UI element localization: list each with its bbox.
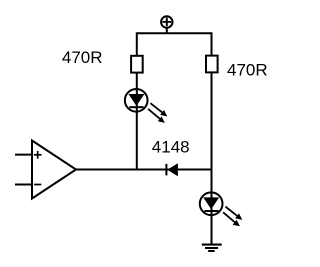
LED D2 right	[200, 192, 243, 226]
diode D3 1N4148	[166, 163, 178, 176]
svg-text:470R: 470R	[227, 61, 268, 80]
wire left branch vertical	[136, 33, 138, 169]
LED D1 left	[125, 89, 167, 123]
wire op-amp output horizontal	[76, 169, 212, 171]
resistor R2 right 470R	[206, 56, 218, 73]
resistor R1 left 470R	[131, 56, 143, 73]
svg-text:470R: 470R	[62, 48, 103, 67]
wire right branch vertical	[211, 33, 213, 244]
power symbol Vcc	[161, 16, 172, 33]
svg-text:4148: 4148	[152, 138, 190, 157]
op-amp U1	[15, 141, 76, 199]
ground	[202, 245, 222, 251]
wire top rail	[136, 32, 213, 34]
